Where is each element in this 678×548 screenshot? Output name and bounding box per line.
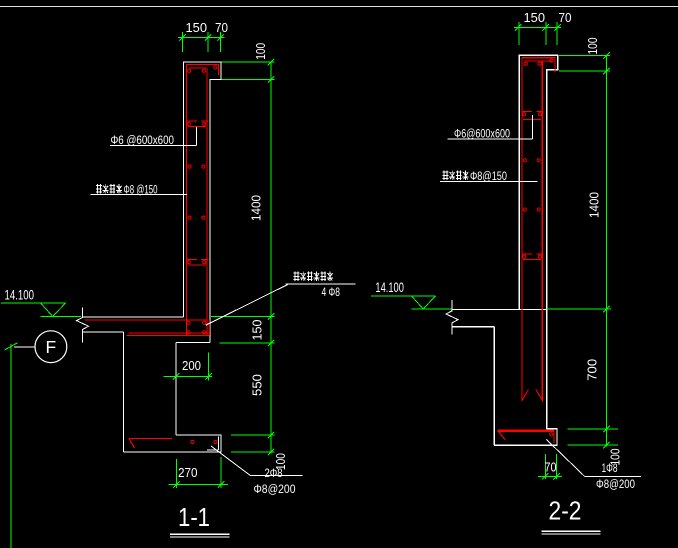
1-1 dim 200 line xyxy=(164,375,213,377)
1-1 ext footing bottom xyxy=(231,451,275,453)
1-1 ext slab top xyxy=(211,315,275,317)
2-2 cap tie dots xyxy=(524,62,527,65)
2-2 footing bar dot xyxy=(550,433,553,436)
grid line F vertical xyxy=(10,344,12,548)
grid bubble F xyxy=(35,331,67,363)
2-2 ext footing top xyxy=(568,428,618,430)
1-1 dim 270 extensions xyxy=(176,457,221,488)
2-2 label layers cjk xyxy=(443,171,469,181)
1-1 top dim line xyxy=(178,37,225,39)
svg-text:1-1: 1-1 xyxy=(178,502,210,532)
svg-text:1400: 1400 xyxy=(249,195,264,221)
svg-text:Φ6@600x600: Φ6@600x600 xyxy=(454,129,510,141)
svg-text:1400: 1400 xyxy=(587,192,602,218)
1-1 lower wall outer face xyxy=(123,332,125,452)
1-1 dim 200 extension xyxy=(208,353,210,381)
svg-text:14.100: 14.100 xyxy=(375,280,404,295)
2-2 right dim line xyxy=(606,55,608,446)
svg-text:100: 100 xyxy=(585,38,600,55)
2-2 footing outline xyxy=(494,429,557,445)
2-2 dim 70 line xyxy=(538,475,562,477)
2-2 level line xyxy=(371,295,436,297)
1-1 dim 270 line xyxy=(169,483,229,485)
1-1 ext slab bottom xyxy=(219,342,274,344)
svg-text:Φ8@150: Φ8@150 xyxy=(470,171,507,183)
1-1 ext step xyxy=(222,79,275,81)
2-2 dim 70 extensions xyxy=(545,454,556,479)
1-1 tie dots B xyxy=(188,165,191,168)
svg-text:Φ8 @150: Φ8 @150 xyxy=(124,185,158,197)
1-1 leader 4phi8 xyxy=(206,284,356,325)
1-1 slab bottom bars xyxy=(127,333,210,336)
1-1 tie set A dots xyxy=(187,122,190,125)
1-1 slab soffit left of wall xyxy=(83,331,124,333)
title 1-1 underline xyxy=(170,533,230,535)
1-1 tie set A bar xyxy=(188,125,206,127)
1-1 beam soffit xyxy=(176,342,210,344)
1-1 leader 2phi8 xyxy=(211,446,303,475)
2-2 cap top rebar xyxy=(522,58,555,73)
1-1 top dim ticks xyxy=(179,34,185,40)
1-1 slab bar end connector xyxy=(208,320,210,336)
2-2 tie set A dots xyxy=(523,113,526,116)
title 2-2 underline xyxy=(542,530,601,532)
1-1 wall cap top rebar xyxy=(187,65,219,76)
1-1 right dim line xyxy=(270,62,272,453)
1-1 wall right rebar xyxy=(206,68,208,336)
svg-text:1Φ8: 1Φ8 xyxy=(602,463,618,475)
2-2 level extension left xyxy=(412,308,452,310)
1-1 slab joint dots xyxy=(187,321,190,324)
2-2 top dim ticks xyxy=(515,24,521,30)
1-1 cap tie dots xyxy=(188,69,191,72)
1-1 footing bar xyxy=(129,439,172,449)
svg-text:150: 150 xyxy=(249,320,264,341)
svg-text:Φ8@200: Φ8@200 xyxy=(254,484,296,496)
svg-text:700: 700 xyxy=(585,359,600,381)
1-1 label 4phi8 cjk xyxy=(294,272,333,282)
svg-text:150: 150 xyxy=(186,20,208,35)
1-1 roof slab top edge xyxy=(82,316,184,318)
svg-text:270: 270 xyxy=(178,465,198,480)
1-1 level line xyxy=(1,302,66,304)
svg-text:70: 70 xyxy=(559,10,572,25)
2-2 leader layers xyxy=(440,181,538,183)
svg-text:4 Φ8: 4 Φ8 xyxy=(322,287,341,299)
2-2 wall right rebar xyxy=(536,61,542,400)
2-2 leader phi6 xyxy=(448,115,533,139)
2-2 tie set D dashes xyxy=(522,253,543,255)
svg-text:100: 100 xyxy=(253,43,268,60)
2-2 parapet wall outline xyxy=(519,55,557,429)
1-1 tie set A dashes xyxy=(187,120,208,122)
2-2 ext footing bottom xyxy=(568,444,618,446)
svg-text:Φ6 @600x600: Φ6 @600x600 xyxy=(111,135,175,147)
2-2 tie set D bar xyxy=(523,258,541,260)
2-2 ledge xyxy=(452,327,494,446)
1-1 top dim extensions xyxy=(183,32,221,52)
2-2 tie dots B xyxy=(523,159,526,162)
1-1 ext footing top xyxy=(231,434,275,436)
2-2 ext step xyxy=(559,70,610,72)
1-1 parapet wall outline xyxy=(184,62,222,343)
1-1 tie set D dots xyxy=(187,261,190,264)
1-1 beam left face xyxy=(175,343,177,436)
2-2 level triangle xyxy=(412,296,436,309)
2-2 tie set A dashes xyxy=(522,111,543,113)
1-1 level extension xyxy=(41,315,82,317)
1-1 label layers cjk xyxy=(96,184,122,194)
svg-text:F: F xyxy=(46,337,57,357)
2-2 level extension right xyxy=(547,308,611,310)
1-1 ext wall top xyxy=(222,61,275,63)
1-1 leader layers xyxy=(91,193,187,195)
2-2 tie set D dots xyxy=(523,255,526,258)
2-2 footing bar xyxy=(498,430,554,432)
2-2 break line xyxy=(446,300,458,335)
1-1 tie dots C xyxy=(188,216,191,219)
svg-text:Φ8@200: Φ8@200 xyxy=(596,479,635,491)
svg-text:2-2: 2-2 xyxy=(549,496,582,526)
grid line F tick xyxy=(5,343,18,350)
1-1 footing outline xyxy=(124,435,222,452)
1-1 footing inner corner lines xyxy=(207,437,219,450)
svg-text:200: 200 xyxy=(182,358,201,373)
2-2 footing bar right bend xyxy=(553,431,555,443)
svg-text:14.100: 14.100 xyxy=(5,288,35,303)
2-2 top dim line xyxy=(514,27,561,29)
1-1 level triangle xyxy=(41,303,66,317)
1-1 footing bar dots xyxy=(191,440,194,443)
2-2 top dim extensions xyxy=(519,22,557,45)
1-1 cap inner bar xyxy=(189,67,207,69)
2-2 cap inner bar xyxy=(525,60,553,62)
2-2 ext wall top xyxy=(559,54,610,56)
1-1 break line xyxy=(77,307,89,342)
svg-text:70: 70 xyxy=(545,460,557,475)
svg-text:70: 70 xyxy=(215,20,228,35)
grid line F connector xyxy=(14,346,35,348)
svg-text:2Φ8: 2Φ8 xyxy=(265,468,283,480)
1-1 tie set D bar xyxy=(188,264,206,266)
1-1 wall left rebar xyxy=(186,65,188,336)
1-1 tie set D dashes xyxy=(187,258,208,260)
2-2 footing bar left hook xyxy=(498,431,505,440)
top border line xyxy=(0,6,678,8)
2-2 base line xyxy=(452,308,547,310)
1-1 leader phi6 xyxy=(110,127,196,145)
2-2 leader 1phi8 xyxy=(546,440,641,477)
svg-text:150: 150 xyxy=(524,10,546,25)
2-2 wall left rebar xyxy=(522,58,529,401)
2-2 tie set A bar xyxy=(523,118,541,120)
1-1 slab top bar xyxy=(85,319,208,321)
2-2 tie dots C xyxy=(523,208,526,211)
svg-text:550: 550 xyxy=(249,374,264,396)
